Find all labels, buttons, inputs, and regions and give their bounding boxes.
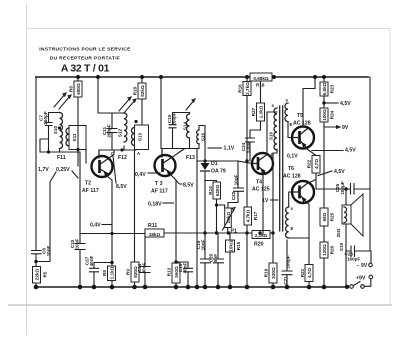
- svg-text:1,1V: 1,1V: [224, 146, 235, 152]
- svg-text:F11: F11: [57, 155, 66, 161]
- svg-text:R16: R16: [238, 84, 243, 93]
- svg-text:AF 117: AF 117: [151, 189, 168, 195]
- svg-text:10nF: 10nF: [46, 245, 51, 256]
- svg-text:T6: T6: [288, 166, 294, 172]
- svg-text:S11: S11: [72, 133, 77, 141]
- svg-text:E: E: [291, 226, 294, 231]
- svg-text:18kΩ: 18kΩ: [149, 232, 161, 237]
- svg-text:4,7Ω: 4,7Ω: [307, 268, 312, 278]
- svg-text:120Ω: 120Ω: [322, 244, 327, 256]
- svg-text:680Ω: 680Ω: [76, 83, 81, 95]
- svg-text:10nF: 10nF: [201, 239, 206, 250]
- svg-text:260pF: 260pF: [43, 111, 48, 124]
- svg-text:0,68kΩ: 0,68kΩ: [253, 76, 268, 81]
- svg-text:R9: R9: [126, 269, 131, 275]
- svg-text:1,7V: 1,7V: [38, 167, 49, 173]
- svg-text:R19: R19: [264, 268, 269, 277]
- svg-text:S14: S14: [183, 121, 188, 130]
- svg-text:T5: T5: [297, 113, 303, 119]
- svg-text:R5: R5: [43, 271, 48, 277]
- svg-text:AC 125: AC 125: [252, 187, 270, 193]
- svg-text:R8: R8: [102, 270, 107, 276]
- svg-text:R17: R17: [253, 211, 258, 220]
- svg-text:INSTRUCTIONS POUR LE SERVICE: INSTRUCTIONS POUR LE SERVICE: [39, 47, 131, 53]
- svg-text:6,8kΩ: 6,8kΩ: [322, 82, 327, 95]
- svg-text:R20: R20: [254, 242, 264, 248]
- svg-text:160μF: 160μF: [347, 257, 360, 262]
- svg-text:9V: 9V: [342, 125, 349, 131]
- svg-text:R13: R13: [167, 267, 172, 276]
- svg-text:AC 128: AC 128: [293, 121, 311, 127]
- svg-text:F12: F12: [118, 155, 127, 161]
- svg-text:100Ω: 100Ω: [322, 109, 327, 121]
- svg-text:R10: R10: [133, 86, 138, 95]
- svg-text:260pF: 260pF: [172, 112, 177, 125]
- svg-text:82kΩ: 82kΩ: [140, 85, 145, 97]
- svg-text:DU RECEPTEUR PORTATIF: DU RECEPTEUR PORTATIF: [50, 56, 120, 62]
- svg-text:22kΩ: 22kΩ: [34, 269, 39, 281]
- svg-text:1,1kΩ: 1,1kΩ: [110, 266, 115, 279]
- svg-text:R6: R6: [69, 86, 74, 92]
- svg-text:S12: S12: [118, 128, 123, 137]
- svg-text:R23: R23: [330, 84, 335, 93]
- svg-text:R25: R25: [330, 212, 335, 221]
- svg-text:4,7kΩ: 4,7kΩ: [246, 209, 251, 222]
- svg-text:4,5V: 4,5V: [334, 169, 345, 175]
- svg-text:R15: R15: [236, 241, 241, 250]
- svg-text:260pF: 260pF: [107, 124, 112, 137]
- svg-text:C21: C21: [283, 276, 288, 285]
- svg-text:R26: R26: [330, 245, 335, 254]
- svg-text:T4: T4: [256, 180, 262, 186]
- svg-text:8,5V: 8,5V: [183, 183, 194, 189]
- svg-text:S13: S13: [138, 132, 143, 141]
- svg-text:620Ω: 620Ω: [215, 185, 220, 197]
- svg-text:4,5V: 4,5V: [340, 101, 351, 107]
- svg-text:0,18V: 0,18V: [148, 202, 162, 208]
- svg-text:2,7kΩ: 2,7kΩ: [245, 82, 250, 95]
- svg-text:40nF: 40nF: [183, 262, 188, 273]
- svg-text:40nF: 40nF: [89, 255, 94, 266]
- svg-text:– 9V: – 9V: [357, 263, 368, 269]
- svg-text:S10: S10: [53, 125, 58, 134]
- svg-text:R14: R14: [208, 186, 213, 195]
- svg-text:4,7Ω: 4,7Ω: [314, 159, 319, 169]
- svg-text:4,5V: 4,5V: [345, 148, 356, 154]
- svg-text:5,6nF: 5,6nF: [246, 141, 251, 153]
- svg-text:330Ω: 330Ω: [271, 267, 276, 279]
- svg-text:R11: R11: [148, 223, 157, 229]
- svg-text:AF 117: AF 117: [82, 188, 99, 194]
- svg-text:10μF: 10μF: [75, 238, 80, 249]
- svg-text:25Ω: 25Ω: [336, 228, 341, 237]
- svg-text:F13: F13: [186, 155, 195, 161]
- svg-text:0,1V: 0,1V: [287, 154, 298, 160]
- svg-text:0,4V: 0,4V: [135, 172, 146, 178]
- svg-text:R24: R24: [330, 110, 335, 119]
- svg-text:D1: D1: [211, 161, 218, 167]
- svg-text:15kΩ: 15kΩ: [229, 240, 234, 252]
- svg-text:1V: 1V: [262, 198, 269, 204]
- svg-text:T2: T2: [85, 181, 91, 187]
- svg-text:R22: R22: [307, 159, 312, 168]
- svg-text:68Ω: 68Ω: [322, 212, 327, 221]
- svg-text:100μF: 100μF: [286, 255, 291, 268]
- svg-text:+9V: +9V: [356, 276, 366, 282]
- svg-text:5nF: 5nF: [213, 254, 218, 262]
- svg-text:1,3kΩ: 1,3kΩ: [259, 105, 264, 118]
- svg-text:OA 79: OA 79: [211, 169, 226, 175]
- svg-text:10μF: 10μF: [234, 174, 239, 185]
- svg-text:0,25V: 0,25V: [56, 167, 70, 173]
- svg-text:S16: S16: [269, 131, 274, 140]
- svg-text:R27: R27: [251, 107, 256, 116]
- svg-text:S19: S19: [339, 242, 344, 251]
- svg-text:A 32 T / 01: A 32 T / 01: [61, 64, 110, 75]
- svg-text:R21: R21: [300, 268, 305, 277]
- svg-text:8,5V: 8,5V: [116, 184, 127, 190]
- svg-text:AC 128: AC 128: [283, 174, 301, 180]
- svg-text:C22: C22: [231, 191, 236, 200]
- svg-text:T 3: T 3: [155, 181, 163, 187]
- svg-text:0,4V: 0,4V: [90, 223, 101, 229]
- svg-text:40nF: 40nF: [142, 262, 147, 273]
- svg-text:100μF: 100μF: [340, 181, 345, 194]
- svg-text:P1: P1: [231, 229, 237, 235]
